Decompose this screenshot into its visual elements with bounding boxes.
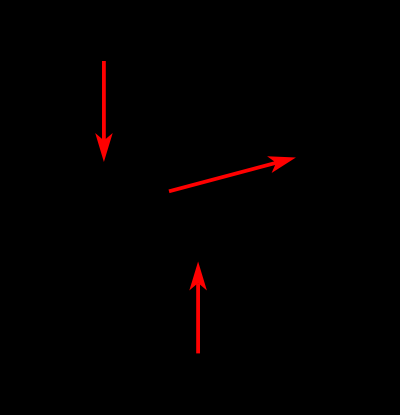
arrow right-up (middle) bbox=[169, 156, 296, 191]
arrow down (top) bbox=[95, 61, 113, 162]
arrow up (bottom) bbox=[189, 262, 207, 354]
